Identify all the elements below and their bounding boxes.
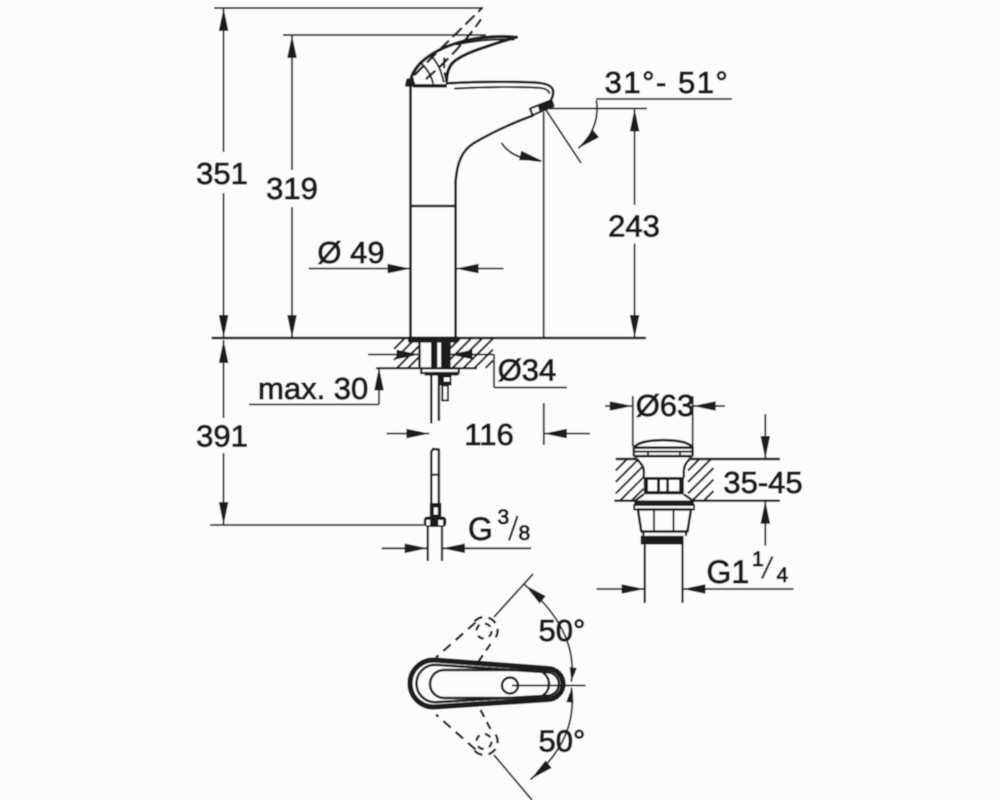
- svg-text:G: G: [468, 511, 493, 547]
- svg-text:Ø 49: Ø 49: [317, 235, 384, 270]
- svg-text:1: 1: [752, 548, 764, 571]
- svg-text:35-45: 35-45: [723, 465, 802, 500]
- svg-text:243: 243: [608, 209, 660, 244]
- svg-text:319: 319: [266, 171, 318, 206]
- svg-text:G1: G1: [707, 554, 750, 590]
- svg-text:8: 8: [519, 522, 531, 545]
- svg-text:351: 351: [196, 156, 248, 191]
- svg-text:4: 4: [777, 564, 789, 587]
- svg-text:116: 116: [464, 417, 513, 452]
- svg-text:3: 3: [498, 506, 510, 529]
- svg-text:391: 391: [196, 419, 248, 454]
- svg-text:max. 30: max. 30: [258, 371, 368, 406]
- svg-text:Ø34: Ø34: [498, 353, 557, 388]
- svg-text:Ø63: Ø63: [636, 388, 695, 423]
- svg-text:50°: 50°: [539, 724, 586, 759]
- svg-text:31°- 51°: 31°- 51°: [605, 65, 730, 100]
- svg-text:50°: 50°: [539, 613, 586, 648]
